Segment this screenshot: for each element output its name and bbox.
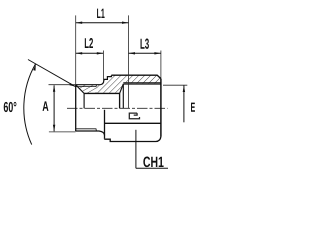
female port bottom face edge [119, 93, 121, 108]
extension line at right face (x=160.9) [160, 51, 162, 79]
label E [191, 103, 195, 112]
hex front rim edge (bottom view) [104, 110, 106, 139]
centerline [67, 107, 168, 109]
label A [43, 101, 49, 111]
dimension E line with arrow [183, 86, 185, 123]
section hatch: hex body wall [97, 75, 161, 93]
female thread minor (thick) [123, 83, 161, 85]
cone angle annotation line with arrowhead [28, 60, 76, 87]
label L3 [141, 39, 149, 49]
extension line at male face (x=75.7) [75, 15, 77, 84]
hex body top edge and end chamfer (section) [111, 75, 160, 78]
cone angle annotation arc with arrowhead [24, 64, 36, 145]
label CH1 [143, 157, 163, 168]
manufacturer logo stamp on hex flat [129, 113, 139, 119]
dimension L2 line with arrows [76, 52, 104, 54]
extension line at thread end (x=103.4) [102, 51, 104, 80]
leader line CH1 [135, 130, 137, 169]
label 60 degrees [4, 102, 17, 112]
dimension L3 line with arrows [129, 52, 161, 54]
male thread root line (top half, thin) [76, 85, 97, 87]
male end face (left) [75, 84, 77, 131]
dimension A extension lines [49, 84, 76, 86]
female port drill cone [120, 84, 124, 94]
male thread crest line (top half) with shoulder staircase [76, 75, 112, 85]
dimension A line with arrows [53, 85, 55, 131]
dimension L1 line with arrows [76, 22, 129, 24]
hex flat boundary line (bottom view) [105, 122, 161, 124]
60 degree internal cone seat [76, 85, 84, 94]
dimension E extension line [163, 84, 187, 86]
section hatch: male thread wall [76, 85, 97, 94]
label L2 [85, 38, 93, 48]
hex bottom silhouette with collar step and corner arc [105, 137, 161, 142]
female thread major (thin) [123, 82, 161, 84]
cone bottom face edge [83, 93, 85, 108]
male thread crest line (bottom half) with shoulder curve [76, 131, 105, 135]
through-bore line [84, 92, 120, 94]
male thread root line (bottom half, thin) [76, 129, 97, 131]
label L1 [97, 9, 105, 18]
female thread end face edge [122, 84, 124, 108]
right end face [160, 79, 162, 137]
extension line at hex/port boundary (x=128.5) [128, 15, 130, 108]
